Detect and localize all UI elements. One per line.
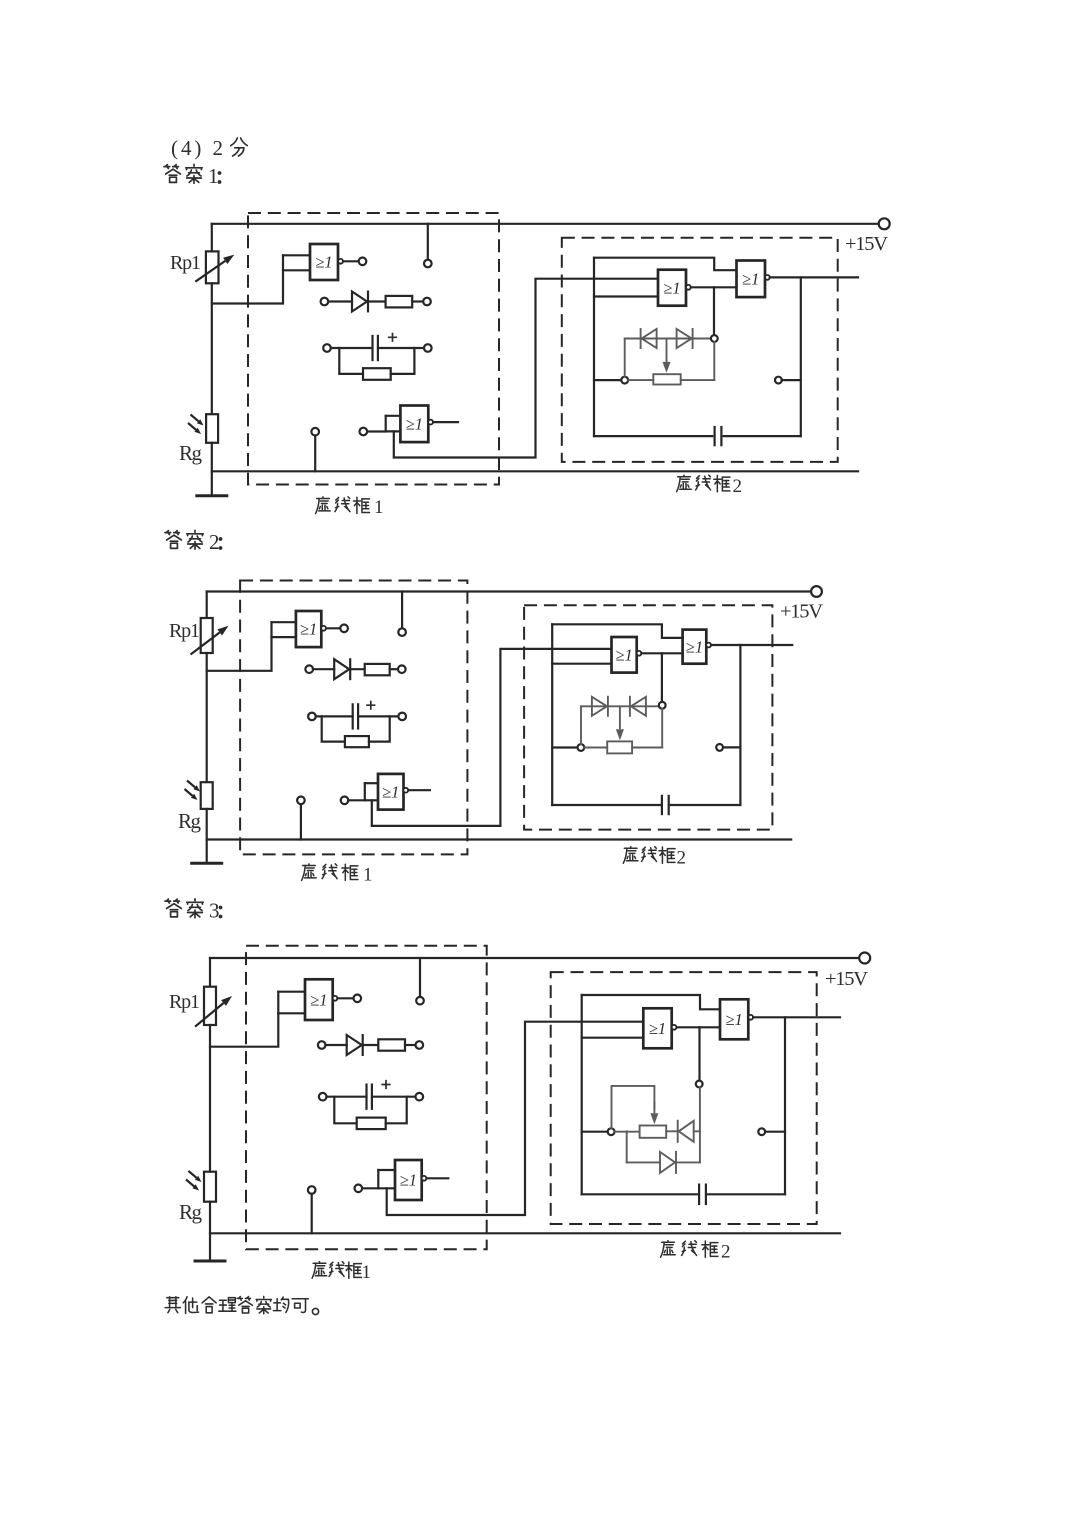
svg-text:+15V: +15V xyxy=(780,601,823,623)
terminal right branch (circuit 3) xyxy=(758,1128,765,1135)
wire from G2 input node to frame-2 riser (circuit 2) xyxy=(372,649,612,826)
resistor Rp1 (circuit 1) xyxy=(206,251,219,283)
wire G3 lower input (circuit 2) xyxy=(552,663,611,665)
wire D1 to resistor R1 (circuit 2) xyxy=(351,668,365,670)
wire to diode D1 (circuit 3) xyxy=(326,1044,347,1046)
diode D3 pointing right on bypass (circuit 3) xyxy=(660,1152,675,1173)
wire tap from divider to gate G1 (circuit 3) xyxy=(210,992,278,1047)
wire left rail lower (circuit 3) xyxy=(209,1202,211,1234)
dashed frame 1 (circuit 1) xyxy=(248,213,499,485)
node B terminal (circuit 2) xyxy=(659,702,666,709)
svg-text:≥1: ≥1 xyxy=(663,278,680,297)
wire stub of top terminal (circuit 1) xyxy=(427,224,429,260)
arrow of potentiometer Rp1 (circuit 2) xyxy=(191,632,220,654)
potentiometer RP (circuit 3) xyxy=(640,1126,667,1138)
capacitor C1 polarized (circuit 3) xyxy=(365,1084,367,1110)
dashed frame 1 (circuit 2) xyxy=(240,581,467,855)
text answer-3 label xyxy=(165,899,222,923)
wire G1 input stubs (circuit 2) xyxy=(272,622,296,637)
wire node-A riser gray (circuit 2) xyxy=(580,706,582,744)
wire G1 input stubs (circuit 1) xyxy=(283,255,310,270)
wire node-A riser gray (circuit 1) xyxy=(624,339,626,377)
svg-text:1: 1 xyxy=(208,164,219,188)
terminal hanging stub lower-left (circuit 2) xyxy=(297,797,305,805)
wire stub to bottom rail (circuit 2) xyxy=(300,804,302,839)
wire to capacitor C1 (circuit 2) xyxy=(316,715,353,717)
inverter bubble G4 (circuit 2) xyxy=(706,643,711,648)
diode D1 (circuit 2) xyxy=(334,659,349,679)
svg-text:≥1: ≥1 xyxy=(315,253,332,272)
wire G3 output to G4 (circuit 3) xyxy=(677,1026,721,1028)
or-gate G4 (circuit 1) xyxy=(737,261,766,298)
potentiometer RP (circuit 1) xyxy=(653,374,680,384)
wire C1 to terminal (circuit 3) xyxy=(372,1096,416,1098)
wire from G2 input node to frame-2 riser (circuit 3) xyxy=(387,1022,644,1215)
arrow of potentiometer Rp1 (circuit 1) xyxy=(195,261,225,282)
svg-text:≥1: ≥1 xyxy=(400,1171,417,1190)
wire to capacitor C1 (circuit 1) xyxy=(331,347,373,349)
wire R1 to terminal (circuit 1) xyxy=(412,300,423,302)
wire terminal stub right (circuit 1) xyxy=(782,379,801,381)
wire feedback top (circuit 1) xyxy=(594,258,737,271)
wire timing node vertical (circuit 2) xyxy=(551,624,553,805)
inverter bubble G2 (circuit 3) xyxy=(422,1176,427,1181)
capacitor C1 polarized (circuit 2) xyxy=(352,703,354,729)
wire wiper loop gray (circuit 3) xyxy=(612,1086,655,1128)
wire node-A horizontal (circuit 3) xyxy=(582,1131,608,1133)
svg-text:≥1: ≥1 xyxy=(615,645,632,664)
wire left rail upper (circuit 1) xyxy=(211,224,213,252)
svg-text:≥1: ≥1 xyxy=(310,990,327,1009)
or-gate G2 (circuit 1) xyxy=(400,406,428,443)
or-gate G4 (circuit 3) xyxy=(720,999,748,1039)
photoresistor Rg (circuit 1) xyxy=(206,414,218,443)
wire G3 output to G4 (circuit 2) xyxy=(641,652,682,654)
wire to diode D1 (circuit 2) xyxy=(313,668,334,670)
terminal right branch (circuit 2) xyxy=(716,744,723,751)
wire capacitor bottom right (circuit 1) xyxy=(724,435,801,437)
wire timing node vertical (circuit 3) xyxy=(581,995,583,1194)
wire G2 input stubs (circuit 1) xyxy=(386,416,401,432)
text question number (4) 2 fen xyxy=(171,136,247,160)
wire parallel loop left (circuit 3) xyxy=(334,1097,356,1124)
terminal diode-row left (circuit 3) xyxy=(318,1041,326,1049)
wire G1 input stubs (circuit 3) xyxy=(278,992,305,1014)
wire to capacitor C1 (circuit 3) xyxy=(327,1096,367,1098)
wire +15V top rail (circuit 2) xyxy=(207,590,812,592)
svg-text:2: 2 xyxy=(721,1241,731,1262)
wire parallel loop left (circuit 2) xyxy=(322,716,345,741)
wire R1 to terminal (circuit 3) xyxy=(405,1044,416,1046)
inverter bubble G4 (circuit 3) xyxy=(748,1015,753,1020)
light arrows of Rg (circuit 1) xyxy=(191,415,199,422)
wire D2 to right vertical gray (circuit 3) xyxy=(694,1130,700,1132)
label frame-1 xuxiankuang1 (circuit 2) xyxy=(302,864,373,886)
wire right branch vertical (circuit 2) xyxy=(739,645,741,805)
or-gate G2 (circuit 2) xyxy=(378,774,404,810)
inverter bubble G1 (circuit 2) xyxy=(321,626,326,631)
wire capacitor bottom left (circuit 1) xyxy=(594,435,712,437)
wire stub of top terminal (circuit 3) xyxy=(419,958,421,997)
wire bottom rail (circuit 2) xyxy=(207,838,792,840)
svg-text:2: 2 xyxy=(733,476,743,497)
wire terminal stub right (circuit 3) xyxy=(765,1131,785,1133)
power terminal +15V (circuit 2) xyxy=(811,586,822,597)
wire G4 output (circuit 3) xyxy=(753,1016,840,1018)
wire parallel loop right (circuit 2) xyxy=(369,716,390,741)
inverter bubble G1 (circuit 3) xyxy=(333,996,338,1001)
or-gate G3 (circuit 2) xyxy=(612,637,637,673)
wire right branch vertical (circuit 1) xyxy=(800,277,802,436)
resistor R1 (circuit 3) xyxy=(378,1039,405,1050)
terminal G1 output (circuit 3) xyxy=(354,995,362,1003)
wire bottom rail (circuit 3) xyxy=(210,1232,840,1234)
or-gate G4 (circuit 2) xyxy=(683,630,707,664)
diode D1 (circuit 3) xyxy=(347,1035,362,1055)
wire left rail middle (circuit 1) xyxy=(211,283,213,414)
wire from G2 input node to frame-2 riser (circuit 1) xyxy=(394,279,658,458)
capacitor C2 (circuit 3) xyxy=(698,1184,700,1206)
resistor R2 parallel with C1 (circuit 1) xyxy=(363,368,391,380)
wire G2 output (circuit 1) xyxy=(433,421,458,423)
wire capacitor bottom right (circuit 3) xyxy=(707,1193,785,1195)
wire junction drop to diode node (circuit 2) xyxy=(661,653,663,702)
resistor R2 parallel with C1 (circuit 3) xyxy=(357,1118,386,1130)
svg-text:+15V: +15V xyxy=(845,233,888,255)
diode D2 pointing left (circuit 3) xyxy=(679,1121,694,1142)
polarity + of C1 (circuit 2) xyxy=(366,701,375,710)
wire terminal to G2 (circuit 2) xyxy=(348,799,365,801)
wire G2 output (circuit 3) xyxy=(426,1177,448,1179)
svg-text:≥1: ≥1 xyxy=(686,637,703,656)
terminal on top rail (circuit 3) xyxy=(416,997,424,1005)
wire C1 to terminal (circuit 2) xyxy=(358,715,398,717)
inverter bubble G3 (circuit 3) xyxy=(672,1025,677,1030)
wire +15V top rail (circuit 1) xyxy=(212,223,879,225)
diode D3 pointing right (circuit 1) xyxy=(677,329,692,348)
svg-text:≥1: ≥1 xyxy=(406,414,423,433)
wire feedback top (circuit 2) xyxy=(552,624,682,638)
diode D2 pointing left (circuit 1) xyxy=(642,329,657,348)
text answer-1 label xyxy=(164,164,221,188)
wire wiper arrow (circuit 1) xyxy=(666,339,668,362)
power terminal +15V (circuit 3) xyxy=(859,953,870,964)
capacitor C2 (circuit 1) xyxy=(713,426,715,446)
wire parallel loop right (circuit 1) xyxy=(391,348,415,374)
inverter bubble G2 (circuit 2) xyxy=(403,788,408,793)
wire C1 to terminal (circuit 1) xyxy=(378,347,424,349)
ground (circuit 2) xyxy=(206,840,208,864)
wire G1 output (circuit 3) xyxy=(337,997,353,999)
wire left rail upper (circuit 3) xyxy=(209,958,211,987)
svg-text:≥1: ≥1 xyxy=(382,782,399,801)
wire wiper arrow (circuit 2) xyxy=(619,706,621,729)
wire node-A horizontal (circuit 1) xyxy=(594,379,621,381)
wire bottom rail (circuit 1) xyxy=(212,470,858,472)
inverter bubble G3 (circuit 1) xyxy=(686,285,691,290)
wire right gray vertical (circuit 3) xyxy=(699,1087,701,1162)
svg-text:1: 1 xyxy=(362,1262,372,1283)
wire capacitor bottom left (circuit 3) xyxy=(582,1193,698,1195)
wire node-A horizontal (circuit 2) xyxy=(552,746,577,748)
wire stub to bottom rail (circuit 3) xyxy=(311,1194,313,1234)
wire D1 to resistor R1 (circuit 1) xyxy=(369,300,386,302)
photoresistor Rg (circuit 2) xyxy=(201,782,213,809)
svg-text:1: 1 xyxy=(374,497,384,518)
wire terminal to G2 (circuit 3) xyxy=(362,1187,378,1189)
terminal capacitor-block right (circuit 1) xyxy=(424,344,432,352)
wire timing node vertical (circuit 1) xyxy=(593,258,595,436)
or-gate G1 (circuit 1) xyxy=(310,244,338,280)
or-gate G3 (circuit 1) xyxy=(658,270,686,306)
polarity + of C1 (circuit 3) xyxy=(381,1080,390,1089)
node B terminal (circuit 1) xyxy=(711,335,718,342)
terminal G1 output (circuit 2) xyxy=(340,625,348,633)
svg-text:1: 1 xyxy=(363,865,373,886)
text footer other reasonable answers xyxy=(165,1296,318,1314)
terminal capacitor-block left (circuit 1) xyxy=(323,344,331,352)
dashed frame 2 (circuit 2) xyxy=(524,605,772,829)
wire R1 to terminal (circuit 2) xyxy=(390,668,398,670)
light arrows of Rg (circuit 3) xyxy=(189,1171,197,1178)
node A terminal (circuit 3) xyxy=(608,1128,615,1135)
label frame-2 xuxiankuang2 (circuit 3) xyxy=(661,1241,731,1263)
wire G3 output to G4 (circuit 1) xyxy=(691,286,737,288)
text answer-2 label xyxy=(165,530,222,554)
resistor Rp1 (circuit 2) xyxy=(201,618,213,653)
terminal diode-row right (circuit 3) xyxy=(416,1041,424,1049)
svg-text:Rp1: Rp1 xyxy=(170,252,201,274)
or-gate G1 (circuit 2) xyxy=(296,611,321,647)
wire right branch vertical (circuit 3) xyxy=(784,1017,786,1194)
svg-text:3: 3 xyxy=(209,899,220,923)
wire tap from divider to gate G1 (circuit 1) xyxy=(212,255,283,303)
svg-text:Rg: Rg xyxy=(179,1200,203,1224)
wire diode row gray (circuit 2) xyxy=(581,705,659,707)
svg-text:≥1: ≥1 xyxy=(649,1019,666,1038)
resistor R2 parallel with C1 (circuit 2) xyxy=(345,736,369,747)
terminal diode-row right (circuit 2) xyxy=(398,665,406,673)
ground (circuit 1) xyxy=(211,471,213,496)
diode D2 pointing right (circuit 2) xyxy=(592,697,607,716)
wire bypass loop bottom gray (circuit 3) xyxy=(627,1131,700,1162)
arrow of potentiometer Rp1 (circuit 3) xyxy=(195,1003,224,1027)
wire pot row gray (circuit 2) xyxy=(584,709,662,748)
wire junction drop to diode node (circuit 1) xyxy=(713,287,715,334)
terminal capacitor-block left (circuit 3) xyxy=(319,1093,327,1101)
terminal capacitor-block right (circuit 3) xyxy=(416,1093,424,1101)
terminal capacitor-block right (circuit 2) xyxy=(398,713,406,721)
capacitor C1 polarized (circuit 1) xyxy=(371,335,373,361)
terminal diode-row left (circuit 1) xyxy=(321,298,329,306)
terminal on top rail (circuit 1) xyxy=(424,260,432,268)
polarity + of C1 (circuit 1) xyxy=(388,333,397,342)
label frame-1 xuxiankuang1 (circuit 1) xyxy=(316,497,384,518)
node A terminal (circuit 2) xyxy=(578,744,585,751)
label frame-2 xuxiankuang2 (circuit 2) xyxy=(623,847,686,869)
wire G3 lower input (circuit 3) xyxy=(582,1037,644,1039)
or-gate G2 (circuit 3) xyxy=(395,1160,422,1200)
wire node-A to pot gray (circuit 3) xyxy=(615,1131,640,1133)
wiper arrow head (circuit 3) xyxy=(653,1102,655,1113)
wire G2 input stubs (circuit 2) xyxy=(365,783,378,800)
wire G2 output (circuit 2) xyxy=(408,789,430,791)
terminal G1 output (circuit 1) xyxy=(359,258,367,266)
wire diode row gray (circuit 1) xyxy=(625,338,711,340)
terminal diode-row left (circuit 2) xyxy=(305,665,313,673)
svg-text:2: 2 xyxy=(209,530,220,554)
terminal on top rail (circuit 2) xyxy=(398,628,406,636)
wire parallel loop right (circuit 3) xyxy=(386,1097,407,1124)
wire G1 output (circuit 2) xyxy=(326,627,340,629)
terminal right branch (circuit 1) xyxy=(775,377,782,384)
wire junction drop to diode node (circuit 3) xyxy=(698,1027,700,1080)
wire left rail upper (circuit 2) xyxy=(206,592,208,619)
svg-text:Rg: Rg xyxy=(179,441,203,465)
terminal G2 input (circuit 1) xyxy=(360,428,368,436)
ground (circuit 3) xyxy=(209,1233,211,1261)
terminal capacitor-block left (circuit 2) xyxy=(308,713,316,721)
or-gate G3 (circuit 3) xyxy=(643,1008,671,1048)
wire to diode D1 (circuit 1) xyxy=(328,300,352,302)
dashed frame 2 (circuit 3) xyxy=(551,972,817,1224)
wire pot row gray (circuit 1) xyxy=(628,342,714,380)
terminal G2 input (circuit 3) xyxy=(355,1185,363,1193)
resistor Rp1 (circuit 3) xyxy=(204,987,216,1025)
inverter bubble G1 (circuit 1) xyxy=(338,259,343,264)
resistor R1 (circuit 1) xyxy=(386,296,413,308)
wire parallel loop left (circuit 1) xyxy=(339,348,363,374)
wire D1 to resistor R1 (circuit 3) xyxy=(363,1044,378,1046)
label frame-2 xuxiankuang2 (circuit 1) xyxy=(677,475,742,497)
terminal hanging stub lower-left (circuit 1) xyxy=(311,428,319,436)
svg-text:≥1: ≥1 xyxy=(725,1010,742,1029)
svg-text:2: 2 xyxy=(677,847,687,868)
terminal hanging stub lower-left (circuit 3) xyxy=(308,1186,316,1194)
inverter bubble G2 (circuit 1) xyxy=(428,420,433,425)
dashed frame 1 (circuit 3) xyxy=(246,946,487,1250)
wire capacitor bottom right (circuit 2) xyxy=(671,804,741,806)
light arrows of Rg (circuit 2) xyxy=(187,781,195,788)
wire G3 lower input (circuit 1) xyxy=(594,295,658,297)
diode D1 (circuit 1) xyxy=(352,292,367,312)
wire tap from divider to gate G1 (circuit 2) xyxy=(207,622,272,671)
wire stub to bottom rail (circuit 1) xyxy=(314,436,316,472)
diode D3 pointing left (circuit 2) xyxy=(631,697,646,716)
inverter bubble G3 (circuit 2) xyxy=(637,651,642,656)
wire stub of top terminal (circuit 2) xyxy=(401,592,403,629)
wire +15V top rail (circuit 3) xyxy=(210,957,859,959)
svg-text:≥1: ≥1 xyxy=(300,620,317,639)
node A terminal (circuit 1) xyxy=(621,377,628,384)
label frame-1 xuxiankuang1 (circuit 3) xyxy=(312,1262,371,1283)
inverter bubble G4 (circuit 1) xyxy=(765,275,770,280)
svg-text:+15V: +15V xyxy=(825,968,868,990)
wire terminal stub right (circuit 2) xyxy=(723,746,740,748)
wire terminal to G2 (circuit 1) xyxy=(367,430,386,432)
svg-text:Rp1: Rp1 xyxy=(169,991,200,1013)
svg-text:Rg: Rg xyxy=(178,809,202,833)
wire G2 input stubs (circuit 3) xyxy=(378,1170,395,1188)
wire left rail lower (circuit 2) xyxy=(206,809,208,840)
wire left rail middle (circuit 3) xyxy=(209,1025,211,1172)
dashed frame 2 (circuit 1) xyxy=(562,238,838,462)
wire capacitor bottom left (circuit 2) xyxy=(552,804,662,806)
resistor R1 (circuit 2) xyxy=(365,664,390,675)
terminal diode-row right (circuit 1) xyxy=(423,298,431,306)
terminal G2 input (circuit 2) xyxy=(341,797,349,805)
wire feedback top (circuit 3) xyxy=(582,995,720,1009)
wire G1 output (circuit 1) xyxy=(343,260,358,262)
or-gate G1 (circuit 3) xyxy=(305,979,333,1020)
wire pot to diode D2 gray (circuit 3) xyxy=(666,1130,679,1132)
potentiometer RP (circuit 2) xyxy=(607,741,632,753)
power terminal +15V (circuit 1) xyxy=(879,218,890,229)
photoresistor Rg (circuit 3) xyxy=(204,1172,216,1202)
wire G4 output (circuit 2) xyxy=(711,644,792,646)
wire G4 output (circuit 1) xyxy=(770,276,858,278)
wire left rail middle (circuit 2) xyxy=(206,653,208,782)
wire left rail lower (circuit 1) xyxy=(211,443,213,472)
node B terminal (circuit 3) xyxy=(696,1081,703,1088)
capacitor C2 (circuit 2) xyxy=(661,795,663,815)
svg-text:≥1: ≥1 xyxy=(742,269,759,288)
svg-text:Rp1: Rp1 xyxy=(169,620,200,642)
